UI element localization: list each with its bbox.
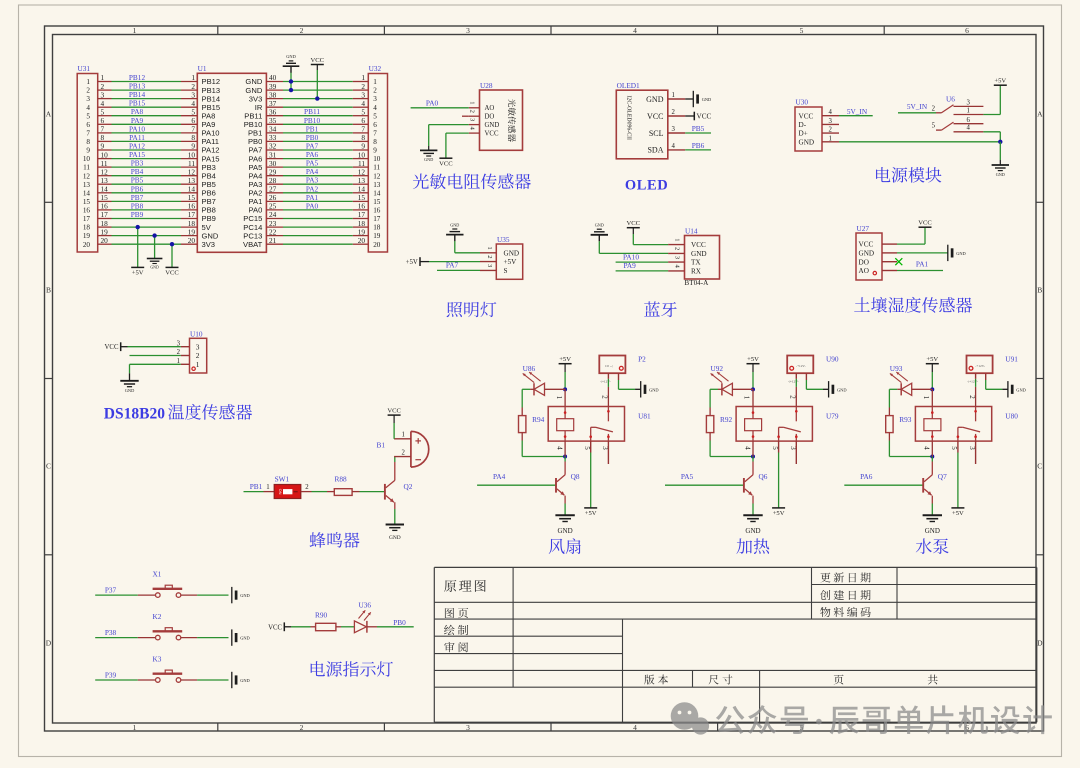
wire U1 pin 29 to U32 pin 12 [266,167,368,176]
wire P38 to button K2 [95,628,138,638]
power VCC into indicator [268,622,310,631]
wire U31 pin 16 to U1 pin 16 [98,201,198,210]
svg-text:D-: D- [799,121,807,129]
power VCC at OLED pin 2 [693,112,695,121]
wire U1 pin 30 to U32 pin 11 [266,159,368,168]
svg-text:OLED: OLED [625,178,669,194]
wire U28 VCC [446,133,469,158]
connector U31 [77,64,98,252]
svg-text:GND: GND [996,172,1005,177]
wire R90 to LED [341,626,354,628]
svg-text:OLED1: OLED1 [617,81,640,90]
svg-text:5: 5 [86,112,90,120]
pin 3 stub of relay [607,441,609,464]
wire PA1 from U27 AO [897,259,943,270]
wire U31 pin 9 to U1 pin 9 [98,142,198,151]
wire P37 to button X1 [95,586,138,596]
svg-text:1: 1 [196,360,200,369]
svg-text:PA1: PA1 [916,259,929,268]
svg-text:+5V: +5V [994,78,1006,85]
svg-text:AO: AO [859,267,869,275]
svg-text:20: 20 [101,236,109,245]
svg-text:3: 3 [829,118,833,125]
wire relay pin 5 to +5V [590,441,592,507]
svg-text:I2C-OLED096-CII: I2C-OLED096-CII [626,96,632,141]
svg-text:C: C [46,462,51,471]
power VCC above U14 [627,220,669,245]
svg-text:Q7: Q7 [938,472,947,481]
ground GND above U1 [283,54,300,90]
junction node 3V3 bottom row [170,242,174,246]
wire U31 pin 19 to U1 pin 19 [98,227,198,236]
svg-text:D+: D+ [799,130,808,138]
svg-text:VCC: VCC [859,241,874,249]
svg-text:6: 6 [967,117,971,124]
label photoresistor sensor [413,173,531,189]
wire U91 pin to relay pin 2 [975,379,977,407]
svg-text:VCC: VCC [165,270,179,277]
svg-text:16: 16 [83,207,91,215]
svg-text:U81: U81 [638,412,651,421]
svg-text:VCC: VCC [647,112,663,121]
wire button K2 to ground [197,637,228,639]
ground GND below U10 [120,380,138,382]
power +5V above relay U81 [559,356,572,389]
label buzzer [310,532,360,548]
sensor U27 soil moisture [856,224,897,280]
no connect X on U27 DO [895,258,902,265]
svg-text:5: 5 [771,446,779,450]
svg-text:GND: GND [691,250,707,258]
svg-text:9: 9 [86,147,90,155]
svg-text:20: 20 [188,236,196,245]
wire U31 pin 10 to U1 pin 10 [98,150,198,159]
svg-text:VCC: VCC [697,113,712,121]
svg-text:20: 20 [358,236,366,245]
svg-text:Q6: Q6 [759,472,768,481]
svg-text:PB6: PB6 [692,141,705,150]
svg-text:18: 18 [373,224,381,232]
wire relay pin 5 to +5V [957,441,959,507]
svg-text:U93: U93 [890,364,903,373]
border row letters [46,110,1043,648]
svg-text:U32: U32 [369,64,382,73]
switch SW1 dip [264,475,312,499]
svg-text:18: 18 [83,224,91,232]
junction node GND row [152,233,156,237]
svg-text:C0 --|: C0 --| [605,364,613,368]
svg-text:1: 1 [86,78,90,86]
svg-text:U91: U91 [1005,355,1018,364]
border column numbers [133,26,970,732]
svg-text:20: 20 [83,241,91,249]
svg-text:20: 20 [373,241,381,249]
svg-text:VCC: VCC [485,131,499,138]
wire SW1 to R88 [312,491,328,493]
module U14 bluetooth BT04-A [668,227,719,287]
wire U1 pin 40 to U32 pin 1 [266,73,368,82]
label power indicator [311,661,393,677]
wire R93 to transistor node [889,441,932,457]
wire relay pin 4 to node [752,441,754,456]
wire Q7 collector [931,457,933,462]
svg-text:PA7: PA7 [446,260,459,269]
svg-text:PA4: PA4 [493,472,506,481]
wire U31 pin 4 to U1 pin 4 [98,99,198,108]
wire Q8 emitter to ground [564,504,566,516]
wire R88 to Q2 base [360,491,385,493]
svg-text:2: 2 [196,351,200,360]
ground GND at U27 [947,245,949,261]
wire U1 pin 31 to U32 pin 10 [266,150,368,159]
svg-text:2: 2 [673,247,680,250]
wire P39 to button K3 [95,670,138,680]
svg-text:Q2: Q2 [404,482,413,491]
svg-text:B1: B1 [377,441,386,450]
svg-text:7: 7 [86,130,90,138]
svg-text:SDA: SDA [647,146,663,155]
wire U1 pin 33 to U32 pin 8 [266,133,368,142]
svg-text:VCC: VCC [918,220,932,227]
junction node relay U80 top [930,387,934,391]
wire U31 pin 11 to U1 pin 11 [98,159,198,168]
svg-text:5: 5 [373,112,377,120]
svg-text:7: 7 [373,130,377,138]
svg-text:TX: TX [691,259,701,267]
svg-text:GND: GND [389,535,401,541]
svg-text:U36: U36 [359,601,372,610]
svg-text:3: 3 [672,126,676,133]
ground GND above U14 [591,223,669,254]
svg-text:GND: GND [799,138,815,146]
label lamp [447,302,497,317]
svg-text:2: 2 [468,110,475,113]
wire R92 to transistor node [710,441,753,457]
ground GND at K3 [231,672,233,688]
svg-text:X1: X1 [153,570,162,579]
svg-text:U10: U10 [190,329,203,338]
svg-text:4: 4 [633,26,637,35]
ground GND below Q2 [386,525,404,542]
svg-text:3: 3 [373,95,377,103]
svg-text:2: 2 [672,109,676,116]
buzzer B1 [377,431,429,467]
svg-text:8: 8 [86,138,90,146]
ground GND below Q7 [923,515,942,535]
svg-text:C: C [1037,462,1042,471]
ground GND power module [999,160,1001,165]
svg-text:1: 1 [829,135,832,142]
wire U1 pin 23 to U32 pin 18 [266,219,368,228]
wire U90 to ground [806,380,828,389]
power +5V into U35 [406,257,480,266]
svg-text:11: 11 [83,164,90,172]
wire SDA net PB6 [685,141,711,150]
wire U31 pin 20 to U1 pin 20 [98,236,198,245]
svg-text:PA10: PA10 [623,253,639,262]
svg-text:U27: U27 [857,224,870,233]
wire U31 pin 15 to U1 pin 15 [98,193,198,202]
switch U6 [898,94,983,132]
svg-text:R88: R88 [335,475,348,484]
svg-text:-|+12V-: -|+12V- [967,380,979,384]
power VCC into U10 [105,342,181,351]
IC U1 STM32 header [197,64,266,252]
svg-text:R94: R94 [532,415,545,424]
svg-text:2: 2 [300,723,304,732]
svg-text:1: 1 [922,396,930,400]
ground GND at X1 [231,587,233,603]
wire U30 GND to node [839,141,1000,143]
svg-text:U31: U31 [78,64,91,73]
svg-text:10: 10 [373,155,381,163]
wire relay pin 4 to node [564,441,566,456]
svg-text:3V3: 3V3 [202,240,216,249]
wire P2 to ground [619,380,641,389]
wire LED to PB0 [367,618,414,627]
wire PA7 to U35 [437,260,480,270]
svg-text:5: 5 [800,26,804,35]
wire PA9 to U14 RX [616,261,669,271]
svg-text:S: S [504,267,508,275]
svg-text:+5V: +5V [926,356,938,363]
svg-text:4: 4 [743,446,751,450]
wire U31 pin 14 to U1 pin 14 [98,184,198,193]
svg-text:19: 19 [83,232,91,240]
connector U32 [368,64,387,252]
title block texts [444,580,486,592]
power VCC below U31 [165,244,179,276]
svg-text:-+12V-: -+12V- [796,364,806,368]
wire U1 pin 34 to U32 pin 7 [266,124,368,133]
wire LED to resistor R92 [710,389,722,407]
svg-text:2: 2 [932,106,936,113]
wire U31 pin 5 to U1 pin 5 [98,107,198,116]
svg-text:Q8: Q8 [571,472,580,481]
svg-text:U30: U30 [796,98,809,107]
transistor Q2 [385,462,413,509]
label 风 [549,538,581,554]
svg-text:10: 10 [83,155,91,163]
ground GND at OLED pin 1 [692,91,694,107]
svg-text:4: 4 [967,125,971,132]
power VCC above U1 [311,57,325,99]
wire U1 pin 27 to U32 pin 14 [266,184,368,193]
resistor R93 [886,408,912,441]
junction node relay U81 bottom [563,455,567,459]
transistor Q8 [556,462,580,504]
wire LED to resistor R94 [522,389,534,407]
resistor R90 [311,611,342,631]
svg-text:GND: GND [450,222,459,227]
svg-text:5: 5 [950,446,958,450]
connector U10 DS18B20 [177,329,207,373]
button K3 [138,654,197,682]
svg-text:GND: GND [240,636,250,641]
svg-text:12: 12 [373,172,381,180]
svg-text:GND: GND [485,122,500,129]
svg-text:GND: GND [125,388,135,393]
wire U1 pin 32 to U32 pin 9 [266,142,368,151]
svg-text:+5V: +5V [132,270,144,277]
svg-text:9: 9 [373,147,377,155]
svg-text:PB1: PB1 [250,482,263,491]
svg-text:VCC: VCC [268,624,282,631]
svg-text:2: 2 [305,484,309,491]
svg-text:1: 1 [486,246,493,249]
svg-text:GND: GND [150,266,159,270]
svg-text:GND: GND [286,54,296,59]
svg-text:GND: GND [646,95,664,104]
LED U92 [711,364,754,396]
svg-text:B: B [1037,286,1042,295]
wire PA10 to U14 TX [616,253,669,263]
svg-text:14: 14 [83,189,91,197]
wire R94 to transistor node [522,441,565,457]
wire relay pin1 to node [752,389,754,406]
relay U80 [915,395,1018,450]
wire U10 pin 1 to ground [130,364,181,380]
svg-text:DO: DO [859,258,869,266]
resistor R92 [706,408,732,441]
wire PA4 to transistor Q8 [477,472,556,485]
svg-text:A: A [46,110,52,119]
svg-text:U35: U35 [497,235,510,244]
wire U31 pin 3 to U1 pin 3 [98,90,198,99]
wire PA5 to transistor Q6 [665,472,744,485]
wire relay pin1 to node [931,389,933,406]
svg-text:GND: GND [1016,387,1026,392]
power VCC above buzzer [387,408,401,439]
svg-text:4: 4 [633,723,637,732]
svg-text:2: 2 [402,449,406,456]
power +5V below relay [584,507,597,509]
svg-text:VCC: VCC [627,220,641,227]
wire Q6 emitter to ground [752,504,754,516]
svg-text:ON: ON [278,489,282,495]
svg-text:P37: P37 [105,586,117,595]
svg-text:3: 3 [86,95,90,103]
svg-text:VCC: VCC [105,344,119,351]
resistor R94 [519,408,545,441]
svg-text:5: 5 [932,122,936,129]
svg-text:15: 15 [83,198,91,206]
svg-text:15: 15 [373,198,381,206]
svg-text:U6: U6 [946,94,955,103]
svg-text:+5V: +5V [559,356,571,363]
svg-text:-|+12V-: -|+12V- [600,380,612,384]
svg-text:2: 2 [300,26,304,35]
svg-text:2: 2 [486,255,493,258]
svg-text:13: 13 [373,181,381,189]
wire U31 pin 12 to U1 pin 12 [98,167,198,176]
svg-text:RX: RX [691,268,702,276]
wire Q2 collector to buzzer [394,457,396,462]
svg-text:PA0: PA0 [426,98,439,107]
svg-text:1: 1 [743,396,751,400]
svg-text:VCC: VCC [691,241,706,249]
svg-text:-|+12V-: -|+12V- [788,380,800,384]
power +5V below relay [772,507,785,509]
wire OLED GND [685,98,693,100]
svg-text:GND: GND [424,157,433,162]
label 水 [916,538,949,554]
ground GND at U91 [1007,381,1009,397]
svg-text:2: 2 [86,87,90,95]
pin 3 stub of relay [975,441,977,464]
power +5V above switch [994,84,1007,86]
wire OLED VCC [685,115,694,117]
svg-text:1: 1 [133,723,137,732]
svg-text:5V_IN: 5V_IN [847,107,868,116]
LED U86 [523,364,566,396]
wire U1 pin 38 to U32 pin 3 [266,90,368,99]
svg-text:+5V: +5V [773,510,785,517]
svg-text:PB5: PB5 [692,124,705,133]
wire button X1 to ground [197,594,228,596]
svg-text:VCC: VCC [387,408,401,415]
wire U1 pin 35 to U32 pin 6 [266,116,368,125]
svg-text:8: 8 [373,138,377,146]
wire relay pin 5 to +5V [778,441,780,507]
wire Q8 collector [564,457,566,462]
svg-text:+5V: +5V [585,510,597,517]
svg-text:R93: R93 [899,415,912,424]
svg-text:-+12V-: -+12V- [975,364,985,368]
svg-text:19: 19 [373,232,381,240]
svg-text:PA0: PA0 [306,201,319,210]
wire SCL net PB5 [685,124,711,133]
svg-text:DO: DO [485,114,495,121]
svg-text:2: 2 [789,395,797,399]
svg-text:3: 3 [967,100,971,107]
svg-text:VCC: VCC [439,160,453,167]
power +5V above relay U80 [926,356,939,389]
wire PB1 to SW1 [244,482,270,492]
svg-text:4: 4 [829,109,833,116]
wire LED to resistor R93 [889,389,901,407]
wire button K3 to ground [197,679,228,681]
svg-text:R90: R90 [315,611,328,620]
svg-text:GND: GND [649,387,659,392]
wire U1 pin 28 to U32 pin 13 [266,176,368,185]
svg-text:SW1: SW1 [275,475,290,484]
transistor Q7 [923,462,947,504]
svg-text:GND: GND [240,593,250,598]
ground GND at K2 [231,629,233,645]
junction node relay U79 top [751,387,755,391]
LED U36 [354,601,371,633]
transistor Q6 [744,462,768,504]
svg-text:U80: U80 [1005,412,1018,421]
svg-text:1: 1 [555,396,563,400]
wire U10 pin 2 [130,355,181,357]
wire U27 GND [897,252,948,254]
svg-text:R92: R92 [720,415,733,424]
ground GND below U28 [428,146,430,150]
resistor R88 [327,475,360,496]
svg-text:4: 4 [555,446,563,450]
wire U1 pin 39 to U32 pin 2 [266,82,368,91]
wire PA6 to transistor Q7 [844,472,923,485]
wire U1 pin 22 to U32 pin 19 [266,227,368,236]
svg-text:13: 13 [83,181,91,189]
wire Q6 collector [752,457,754,462]
wire U1 pin 36 to U32 pin 5 [266,107,368,116]
svg-text:GND: GND [925,527,940,535]
svg-text:2: 2 [601,395,609,399]
LED U93 [890,364,933,396]
